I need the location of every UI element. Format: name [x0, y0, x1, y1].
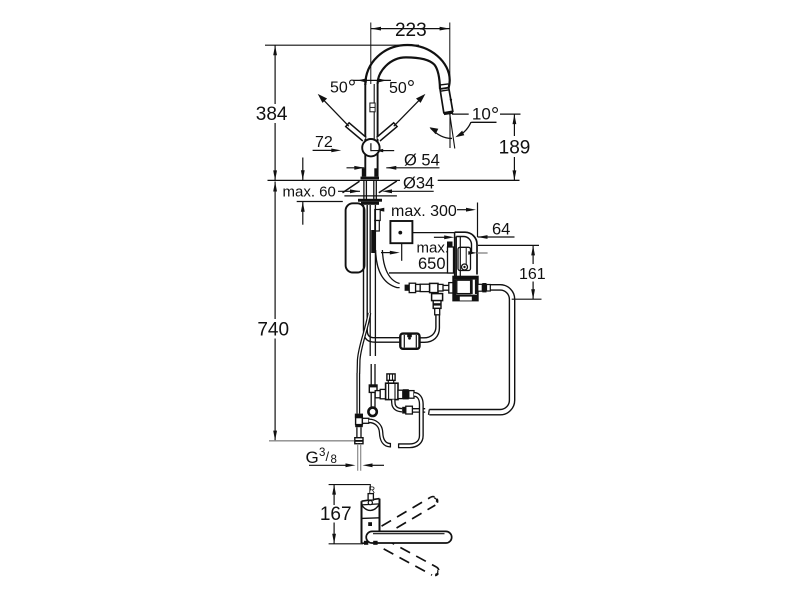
- arrow to control box head: [444, 235, 454, 239]
- dim 384 arrowhead top: [273, 45, 277, 55]
- dim max300 left arrowhead: [374, 208, 384, 212]
- dim max60 top arrowhead: [301, 170, 305, 180]
- box right fitting1: [478, 284, 483, 291]
- dim 50 right arrowhead: [416, 94, 425, 103]
- dim 384 ext line top: [265, 44, 419, 46]
- pipeB nut band: [369, 385, 377, 387]
- dim max650 arrow line: [381, 252, 392, 254]
- dim d54 left arrowhead: [354, 166, 364, 170]
- control box outer outline: [455, 232, 477, 274]
- svg-text:R: R: [369, 485, 376, 495]
- hose2 right line: [374, 205, 376, 356]
- svg-text:72: 72: [315, 134, 333, 151]
- dim 189 ext line top right: [500, 113, 521, 115]
- svg-text:3: 3: [319, 447, 325, 459]
- spray head bottom cap: [444, 112, 453, 113]
- svg-text:Ø 54: Ø 54: [404, 152, 440, 170]
- dim d54 left line: [347, 167, 365, 169]
- deck top line: [268, 179, 520, 181]
- valve block inner rect: [457, 280, 471, 293]
- dim 72 arrowhead: [331, 149, 341, 153]
- hose to box bottom line: [443, 289, 449, 291]
- deck bottom line: [297, 201, 343, 203]
- PART D: bottom view: [320, 485, 452, 578]
- svg-text:10°: 10°: [472, 104, 499, 127]
- check outlet pipe: [412, 409, 425, 412]
- coupling dark bar: [371, 230, 375, 253]
- dim 167 line upper: [333, 485, 335, 505]
- svg-text:50°: 50°: [330, 77, 356, 100]
- base foot left: [364, 541, 368, 545]
- svg-text:161: 161: [519, 266, 546, 283]
- angle stop branch: [362, 418, 368, 423]
- dim 64 line: [478, 236, 515, 238]
- dim 161 line lower: [532, 282, 534, 300]
- dim max300 right arrowhead: [466, 208, 476, 212]
- control box thin vertical: [465, 248, 467, 268]
- solid spout capsule: [366, 531, 452, 543]
- inline connector sleeve: [420, 284, 429, 291]
- valve right port3: [409, 391, 414, 399]
- dim 223 arrowhead left: [371, 27, 381, 31]
- G38 tail pipe: [358, 444, 361, 471]
- R cap rect: [368, 494, 373, 501]
- svg-text:167: 167: [320, 504, 352, 525]
- R cap circle: [368, 501, 372, 505]
- inline connector body: [409, 283, 415, 292]
- svg-text:650: 650: [418, 255, 446, 273]
- control box internal arrowhead: [468, 251, 477, 255]
- dim 167 ext line bottom: [329, 543, 363, 545]
- angle stop pipe: [357, 427, 361, 438]
- check valve stack mid: [433, 301, 441, 309]
- faucet body base left edge: [362, 168, 365, 176]
- dim 223 arrowhead right: [440, 27, 450, 31]
- valve block left band: [454, 280, 457, 301]
- branch hose end cap: [389, 443, 391, 448]
- base foot right: [373, 541, 377, 545]
- dim max650 bottom line: [389, 272, 454, 274]
- base body top edge: [362, 499, 380, 502]
- crossing pullout hose: [358, 313, 369, 374]
- mounting housing rounded rect: [346, 203, 365, 272]
- hose2 left line: [369, 205, 371, 356]
- dim 50 left arrowhead: [318, 94, 327, 103]
- valve bottom stub core: [393, 400, 402, 411]
- svg-text:max. 60: max. 60: [283, 184, 336, 201]
- dim 384 arrowhead bottom: [273, 170, 277, 180]
- svg-text:384: 384: [256, 104, 288, 125]
- ball horizontal line: [371, 150, 383, 152]
- base body right edge: [379, 499, 381, 532]
- PART C: under sink: [343, 181, 515, 471]
- svg-text:50°: 50°: [389, 77, 415, 100]
- svg-text:189: 189: [499, 138, 531, 159]
- escutcheon right slant: [379, 181, 397, 193]
- escutcheon left slant: [343, 181, 360, 193]
- logo mark line: [370, 106, 375, 108]
- big loop hose inner: [429, 290, 509, 409]
- square plug leader: [412, 232, 454, 234]
- lever arm right: [377, 123, 398, 141]
- big loop hose outer: [429, 285, 514, 415]
- faucet base band: [361, 177, 380, 180]
- dim 384 line lower: [274, 123, 276, 180]
- dim 72 line: [313, 149, 335, 151]
- spray head division line: [440, 90, 449, 91]
- hose weight left band: [403, 335, 405, 348]
- dim d34 right arrowhead: [382, 189, 392, 193]
- dim 167 line lower: [333, 523, 335, 544]
- dim 161 ext line top: [478, 244, 539, 246]
- box left fitting: [449, 283, 455, 293]
- valve right port1: [398, 390, 403, 398]
- dim 50 right leader: [394, 96, 423, 126]
- lever rotate arrowhead right: [377, 78, 386, 82]
- dim d54 underline: [386, 167, 439, 169]
- hose weight notch dot: [408, 337, 411, 340]
- dim max60 bottom arrowhead: [301, 202, 305, 212]
- solid spout inner line: [373, 533, 445, 535]
- PART B: dimensions: [256, 20, 546, 467]
- spray head body: [440, 88, 453, 113]
- angle stop bottom nut: [355, 438, 363, 444]
- locknut upper: [358, 199, 382, 202]
- spout column left edge: [364, 84, 366, 177]
- square plug box: [390, 221, 412, 243]
- control box inner top curve: [456, 237, 471, 253]
- hose1 inner line: [367, 205, 401, 338]
- branch hose: [369, 421, 390, 445]
- dim 64 arrowhead: [478, 235, 488, 239]
- inline tee body: [430, 283, 438, 292]
- valve block bottom band: [454, 295, 478, 301]
- valve body inner lines: [389, 383, 395, 399]
- dim 189 ext line top left: [452, 113, 469, 115]
- tee to valve connector2: [380, 389, 386, 398]
- lever rotate arrowhead left: [358, 78, 367, 82]
- check valve stack nut: [432, 294, 443, 301]
- check valve stack tip: [435, 308, 440, 314]
- locknut lower: [361, 202, 379, 205]
- arrow to control box tail: [434, 236, 446, 238]
- lever stem line: [373, 84, 375, 139]
- dim G38 arrowhead left: [346, 463, 356, 467]
- dim 740 line upper: [274, 182, 276, 320]
- angle stop body: [356, 418, 363, 425]
- PART A: faucet top view: [346, 45, 497, 179]
- valve cap ribs: [390, 374, 393, 381]
- base mid line: [362, 517, 380, 520]
- spout inner arc: [378, 57, 440, 88]
- svg-text:8: 8: [331, 454, 337, 466]
- logo mark on column: [370, 103, 375, 112]
- control box left edge: [455, 232, 457, 276]
- angle stop bottom nut band: [355, 440, 363, 442]
- svg-text:max.: max.: [417, 240, 450, 257]
- 10 deg leader curve: [458, 122, 497, 136]
- hoseC inner line: [382, 250, 399, 284]
- right port hose core: [399, 394, 422, 445]
- svg-text:max. 300: max. 300: [391, 203, 457, 220]
- dim G38 arrowhead right: [363, 463, 373, 467]
- hose weight top notch: [407, 334, 412, 337]
- right port hose: [399, 394, 422, 445]
- dim 740 arrowhead bottom: [273, 431, 277, 441]
- valve block right band1: [471, 280, 473, 294]
- dim 161 line upper: [532, 245, 534, 264]
- valve body: [386, 383, 398, 399]
- svg-text:G: G: [306, 448, 319, 467]
- dim d34 left arrowhead: [350, 189, 360, 193]
- dim 189 line upper: [513, 114, 515, 136]
- left hose lower: [356, 373, 360, 414]
- svg-text:223: 223: [395, 20, 427, 41]
- control box side clip: [448, 247, 454, 273]
- svg-text:64: 64: [492, 221, 510, 239]
- coupling stack lower: [375, 221, 380, 232]
- pipeB lower: [371, 392, 375, 407]
- valve block right band2: [475, 280, 477, 294]
- 10 deg leader arrowhead: [455, 131, 464, 138]
- dashed spout upper: [376, 495, 439, 537]
- control box inner vertical: [459, 237, 461, 276]
- dim 189 arrowhead top: [513, 114, 517, 124]
- square plug dot: [398, 231, 402, 235]
- dim 740 line lower: [274, 339, 276, 441]
- shank right pipe wall: [374, 181, 377, 199]
- dim max300 ext line: [477, 203, 479, 238]
- dim 223 line: [371, 28, 450, 30]
- dim d34 underline: [390, 190, 434, 192]
- valve neck: [388, 380, 393, 383]
- inline fitting right: [438, 284, 443, 291]
- dim 161 ext line bottom: [512, 298, 542, 300]
- control box side clip dark: [447, 242, 453, 248]
- box right fitting2: [482, 283, 486, 292]
- dim 189 line lower: [513, 157, 515, 180]
- valve bottom stub hose: [393, 400, 402, 411]
- tee to valve connector1: [375, 391, 380, 398]
- angle stop lower band: [355, 425, 363, 428]
- dim 167 arrowhead top: [332, 485, 336, 495]
- faucet body base right edge: [374, 168, 377, 176]
- angle stop top nut: [355, 414, 363, 418]
- pipeB end ring: [368, 408, 376, 416]
- dim 167 ext line top: [329, 485, 371, 491]
- dim 167 arrowhead bottom: [332, 534, 336, 544]
- dim max60 top arrow line: [302, 158, 304, 181]
- dim 223 ext line left: [370, 23, 372, 85]
- base bottom line: [362, 542, 368, 544]
- right port hose end cap: [398, 443, 400, 448]
- spray head collar line: [439, 84, 448, 85]
- hose1 outer line: [364, 205, 402, 342]
- pipeB nut: [369, 385, 377, 392]
- inline connector dark piece: [405, 285, 410, 291]
- check fitting dark: [402, 407, 406, 414]
- base body left edge: [361, 501, 363, 543]
- dim 72 right tail: [383, 150, 394, 152]
- base small dark mark: [368, 522, 372, 526]
- hoseC outer line: [376, 250, 400, 288]
- dim 740 arrowhead top: [273, 182, 277, 192]
- control box gray stub: [477, 252, 487, 254]
- dim max300 right line: [457, 209, 466, 211]
- left hose lower core: [357, 373, 359, 414]
- dim 72 right arrowhead: [375, 149, 383, 152]
- control box sensor dot: [463, 266, 465, 268]
- 10 deg fan arrowhead left: [430, 127, 439, 134]
- base collar lens upper: [362, 504, 380, 505]
- lever arm left: [346, 123, 367, 141]
- crossing pullout hose core: [358, 313, 369, 374]
- hose to box top line: [443, 284, 449, 286]
- inline connector nut: [416, 284, 421, 291]
- dim 161 arrowhead top: [531, 245, 535, 255]
- svg-text:/: /: [326, 449, 330, 464]
- svg-text:740: 740: [257, 320, 289, 341]
- spray head button: [450, 99, 452, 101]
- ball joint: [362, 139, 379, 156]
- dim 189 arrowhead bottom: [513, 170, 517, 180]
- dashed spout lower: [380, 539, 440, 577]
- dim max650 arrowhead: [390, 251, 400, 255]
- 10 deg vertical ref line: [449, 114, 451, 148]
- dim max60 bottom arrow line: [302, 202, 304, 225]
- base collar lens lower: [362, 504, 380, 511]
- weight hose right outer: [420, 315, 440, 343]
- valve block top band: [453, 277, 478, 280]
- check fitting body: [406, 406, 413, 414]
- dim G38 line right: [372, 464, 384, 466]
- shank left pipe wall: [364, 181, 367, 199]
- dim max650 ext line: [401, 243, 403, 261]
- dim 50 left leader: [320, 96, 349, 126]
- spout column right edge: [377, 84, 379, 177]
- dim 189 ext line bottom: [438, 179, 520, 181]
- valve block body: [453, 277, 478, 301]
- 10 deg slanted ref line: [450, 113, 455, 149]
- pipeB stub: [371, 364, 375, 385]
- hose weight right band: [415, 335, 417, 348]
- box right fitting3: [487, 285, 491, 292]
- dim d34 left line: [338, 190, 360, 192]
- svg-text:Ø34: Ø34: [403, 175, 434, 193]
- valve block bottom notch: [460, 297, 472, 301]
- 10 deg fan arc: [431, 128, 452, 138]
- hose weight body: [400, 334, 419, 349]
- coupling stack on shank: [375, 210, 380, 221]
- dim G38 line left: [309, 464, 346, 466]
- weight hose right inner: [420, 315, 436, 338]
- control box sensor circle: [462, 264, 468, 270]
- big loop hose end cap: [428, 410, 431, 415]
- ball vertical axis: [370, 143, 372, 151]
- spout outer arc: [365, 45, 449, 88]
- branch hose core: [369, 421, 390, 445]
- dim d54 right arrowhead: [386, 166, 396, 170]
- check valve stack band: [433, 303, 441, 305]
- dim 161 arrowhead bottom: [531, 289, 535, 299]
- control box cartridge frame: [458, 247, 471, 270]
- escutcheon bottom edge: [344, 195, 397, 197]
- valve right port2: [403, 389, 409, 399]
- dim 223 ext line right: [449, 23, 451, 78]
- dim 384 line upper: [274, 45, 276, 104]
- lever rotate arrow line: [353, 79, 391, 81]
- valve cap: [387, 374, 395, 381]
- ref line bottom gray: [269, 440, 354, 442]
